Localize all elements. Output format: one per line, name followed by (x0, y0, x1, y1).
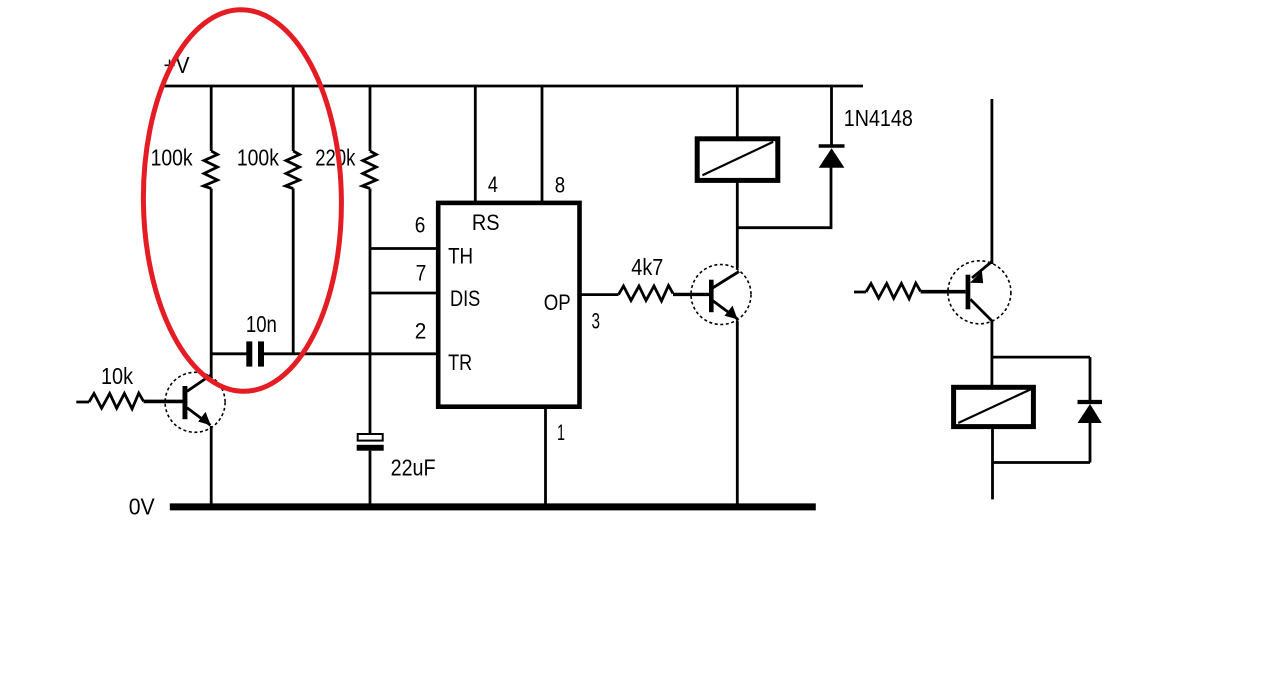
resistor R6 zigzag (866, 283, 921, 299)
wire R6 to Q3 base (921, 290, 966, 294)
wire relay RL2 bottom (991, 427, 994, 499)
wire pin 1 to 0V (544, 407, 547, 505)
svg-text:DIS: DIS (450, 286, 480, 311)
transistor Q3 emitter arrow (PNP) (970, 271, 983, 283)
+V supply rail wire (163, 85, 863, 88)
wire TR pin 2 left segment (211, 352, 246, 355)
wire R2 bottom to TR node (292, 189, 295, 355)
svg-text:100k: 100k (151, 144, 193, 170)
svg-text:6: 6 (415, 212, 426, 237)
wire diode D1 to junction (830, 167, 833, 228)
svg-text:1N4148: 1N4148 (844, 105, 913, 131)
wire junction to relay RL2 (991, 357, 994, 387)
wire R1 bottom to transistor collector node (210, 189, 213, 378)
wire +V to relay RL1 (736, 86, 739, 140)
transistor Q1 emitter lead (187, 408, 211, 426)
wire Q1 emitter to 0V (210, 426, 213, 505)
svg-text:TH: TH (448, 243, 473, 268)
transistor Q3 collector lead (970, 299, 992, 321)
svg-text:3: 3 (592, 309, 601, 334)
svg-text:1: 1 (557, 420, 565, 445)
wire R1 top (210, 86, 213, 151)
relay RL1 body (697, 139, 778, 181)
transistor Q2 collector lead (713, 272, 740, 289)
transistor Q2 circle (691, 265, 751, 325)
wire Q2 emitter to 0V (736, 321, 739, 506)
wire TR pin 2 right segment (264, 352, 438, 355)
wire pin4 (474, 86, 477, 202)
svg-text:4k7: 4k7 (631, 254, 663, 280)
svg-text:4: 4 (488, 172, 498, 197)
svg-text:22uF: 22uF (391, 455, 436, 481)
transistor Q3 circle (948, 261, 1011, 324)
wire 4k7 to Q2 base (673, 293, 710, 296)
wire Q3 collector down (991, 321, 994, 358)
relay RL2 diagonal (958, 389, 1032, 423)
wire relay RL1 to Q2 collector (736, 180, 739, 269)
svg-text:10n: 10n (246, 311, 277, 337)
resistor R4 10k zigzag (89, 393, 144, 409)
transistor Q2 emitter lead (713, 301, 738, 320)
diode D2 triangle (1078, 404, 1102, 423)
wire +V to diode D1 (830, 86, 833, 145)
diode D1 cathode bar (819, 144, 845, 147)
transistor Q1 emitter arrow (198, 412, 211, 425)
transistor Q2 base bar (709, 280, 714, 313)
resistor R2 100k zigzag (286, 151, 300, 189)
resistor R1 100k zigzag (204, 151, 218, 189)
wire TH pin 6 (370, 247, 438, 250)
wire junction to diode D2 (1089, 357, 1092, 402)
wire C2 bottom to 0V (369, 451, 372, 505)
transistor Q1 base bar (183, 386, 188, 419)
wire R3 top (369, 86, 372, 151)
resistor R6 stub (854, 291, 866, 294)
wire DIS pin 7 (370, 292, 438, 295)
wire D1 junction horizontal (737, 226, 832, 229)
relay RL2 body (954, 387, 1034, 426)
diode D2 cathode bar (1078, 400, 1103, 404)
resistor R3 220k zigzag (362, 151, 376, 189)
op-amp / 555 IC U1 body (438, 203, 579, 407)
svg-text:8: 8 (555, 172, 565, 197)
0V rail (170, 503, 816, 510)
svg-text:0V: 0V (129, 494, 156, 520)
svg-text:OP: OP (544, 290, 571, 315)
svg-text:2: 2 (415, 319, 427, 344)
capacitor C1 10n left plate (246, 341, 252, 366)
resistor R5 4k7 zigzag (619, 286, 674, 302)
capacitor C2 22uF bottom plate (357, 445, 384, 451)
resistor R4 10k stub (76, 401, 89, 404)
wire OP pin 3 stub (579, 293, 619, 296)
transistor Q3 base bar (966, 275, 971, 310)
svg-text:TR: TR (448, 350, 472, 375)
red annotation ellipse (141, 9, 343, 393)
capacitor C2 22uF top plate (358, 434, 383, 441)
wire 10k to Q1 base (144, 400, 183, 404)
diode D1 triangle (819, 148, 845, 168)
wire diode D2 to bottom horizontal (1089, 422, 1092, 463)
wire right junction horizontal (992, 356, 1090, 359)
transistor Q1 circle (165, 372, 225, 432)
wire right bottom horizontal (993, 461, 1091, 464)
wire R2 top (292, 86, 295, 151)
svg-text:10k: 10k (101, 363, 133, 389)
transistor Q1 collector lead (187, 375, 212, 392)
relay RL1 diagonal (702, 142, 773, 175)
wire right circuit top (991, 99, 994, 264)
svg-text:7: 7 (416, 261, 427, 286)
wire pin8 (541, 86, 544, 202)
capacitor C1 10n right plate (258, 341, 264, 366)
svg-text:RS: RS (472, 210, 500, 235)
svg-text:100k: 100k (237, 144, 279, 170)
transistor Q3 emitter lead (972, 262, 992, 278)
transistor Q2 emitter arrow (725, 306, 738, 320)
wire R3 bottom to C2 top (369, 189, 372, 434)
